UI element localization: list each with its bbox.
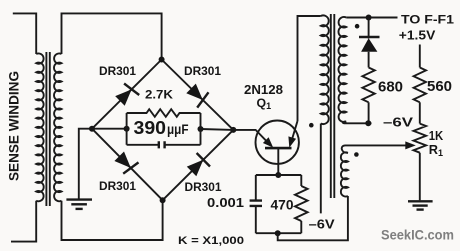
resistor 560 [419,45,421,68]
transformer T2 core [331,14,335,198]
svg-text:–6V: –6V [383,115,413,130]
svg-text:μμF: μμF [167,122,189,137]
polarity dot T2 feedback [354,152,359,157]
node RC box right junction [198,126,204,132]
node emitter RC top junction [275,172,281,178]
left transformer T1 secondary winding [54,53,61,201]
svg-text:R1: R1 [429,142,443,158]
svg-text:–6V: –6V [309,218,336,232]
node RC2 bottom junction [275,230,281,236]
wire RC2 bottom to feedback winding [278,196,348,240]
right transformer T2 secondary winding [338,17,346,122]
wire bridge left vertex to ground [79,129,92,199]
diode DR301 (bottom-right) [187,153,210,176]
diode CR1 (clamp) [359,18,380,68]
svg-text:0.001: 0.001 [207,195,244,210]
svg-text:DR301: DR301 [99,64,136,78]
wire bridge right vertex to Q1 base [233,129,256,131]
svg-text:SeekIC.com: SeekIC.com [381,226,454,242]
wire Q1 emitter down [277,148,279,175]
wire T2 secondary bottom to -6V node [343,122,372,124]
capacitor 390uuF (bottom side of box) [127,144,201,146]
wire Q1 collector riser [298,16,321,121]
diode DR301 (bottom-left) [114,152,138,174]
wire bridge branch top-right [162,60,234,130]
svg-text:2.7K: 2.7K [145,87,173,101]
svg-text:470: 470 [271,197,294,213]
node diode top junction [366,15,372,21]
transformer T1 core [46,52,49,206]
ground (left) [66,200,92,209]
potentiometer R1 1K [419,102,421,123]
wire R1 wiper from feedback winding [342,145,407,153]
svg-text:DR301: DR301 [184,64,221,78]
svg-text:DR301: DR301 [185,180,222,194]
wire bridge left vertex to RC box [92,128,127,130]
svg-text:TO F-F1: TO F-F1 [401,13,455,27]
resistor 2.7K (top side of box) [127,109,201,117]
node RC box left junction [124,126,130,132]
node bridge right junction [230,127,236,133]
wire T1 secondary top to bridge top [62,13,162,59]
wire RC2 loop bottom [256,232,301,234]
transistor Q1 2N128 [256,121,299,164]
wire bridge branch bottom-right [163,130,234,200]
node bridge left junction [89,126,95,132]
svg-text:560: 560 [427,79,452,95]
svg-text:Q1: Q1 [257,96,272,111]
polarity dot T2 primary [309,123,314,128]
svg-text:+1.5V: +1.5V [399,28,436,43]
wire T1 primary bottom lead [11,201,36,242]
svg-text:680: 680 [378,79,403,95]
wire bridge branch top-left [92,60,162,129]
wire RC2 loop top [256,174,301,176]
svg-text:K = X1,000: K = X1,000 [178,235,244,246]
wire RC box right to bridge right vertex [201,128,234,131]
right transformer T2 feedback winding [341,152,348,196]
wire RC box left side [126,113,128,145]
svg-text:1K: 1K [429,128,444,143]
svg-text:SENSE WINDING: SENSE WINDING [6,71,21,181]
resistor 470 (right side of RC2) [300,175,302,186]
diode DR301 (top-right) [186,84,208,108]
wire T1 secondary bottom to bridge bottom [62,200,163,240]
wire RC box right side [200,113,202,145]
right transformer T2 primary winding [321,15,329,124]
wire T1 primary top lead [13,13,36,54]
ground (right) [408,201,433,209]
node bridge top junction [159,57,165,63]
polarity dot T2 secondary [355,24,360,29]
diode DR301 (top-left) [115,84,139,106]
node bridge bottom junction [160,197,166,203]
resistor 680 [362,68,374,103]
node -6V junction [365,120,371,126]
wire T2 secondary top rail to F-F1 [346,17,397,19]
svg-text:2N128: 2N128 [244,82,283,97]
wire bridge branch bottom-left [92,129,163,201]
svg-text:390: 390 [134,117,167,138]
svg-text:DR301: DR301 [99,179,136,193]
left transformer T1 primary winding (sense winding) [36,53,43,201]
wire T2 primary bottom -6V stub [320,124,322,214]
capacitor 0.001 (left side of RC2) [255,175,257,233]
